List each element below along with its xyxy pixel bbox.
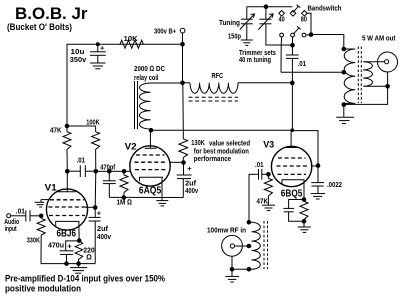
node B+ junction: [180, 42, 185, 47]
node trimmer top: [264, 4, 269, 9]
svg-text:400v: 400v: [185, 186, 199, 195]
resistor V3 cathode: [300, 201, 308, 221]
wire divider cross: [67, 125, 96, 127]
node jack shell bottom: [230, 267, 235, 272]
wire to output transformer: [311, 35, 344, 50]
svg-text:300v B+: 300v B+: [154, 26, 176, 35]
svg-text:.01: .01: [77, 155, 86, 164]
svg-text:Ω: Ω: [86, 252, 92, 261]
svg-text:.01: .01: [298, 59, 307, 68]
wire interstage bus: [96, 170, 110, 172]
svg-text:80: 80: [301, 14, 307, 23]
switch upper contact 80: [302, 11, 308, 17]
relay coil winding: [139, 83, 150, 129]
node transformer primary bottom: [342, 102, 347, 107]
wire 80 lower contact stub: [306, 34, 311, 36]
svg-text:47K: 47K: [50, 126, 62, 135]
wire cathode to 470u: [66, 241, 80, 251]
ground below transformer: [336, 105, 354, 124]
wire pole contact stub: [292, 37, 294, 45]
node 1M junction: [122, 169, 127, 174]
node plate 4-way junction: [291, 128, 295, 132]
capacitor 470pf: [103, 171, 116, 197]
ground RF input: [225, 269, 239, 282]
tube V1 envelope: [46, 189, 87, 230]
capacitor .01 tank: [286, 55, 299, 58]
ground V1 cathode bus: [70, 264, 87, 274]
RF input coil core dashed: [264, 221, 268, 269]
svg-text:+: +: [67, 241, 72, 250]
switch upper contact 40: [279, 11, 285, 17]
wire tank top: [247, 6, 293, 8]
svg-text:470u: 470u: [48, 241, 64, 250]
node secondary bottom: [385, 84, 390, 89]
ground below tuning cap: [241, 24, 253, 46]
V2 plate: [145, 130, 157, 148]
wire B+ down to relay/RFC: [182, 44, 184, 83]
wire V1 cathode lead: [78, 227, 80, 241]
resistor 47K (V1 plate): [63, 126, 71, 171]
ground below 10u: [90, 63, 106, 69]
wire V2 screen lead: [170, 161, 184, 163]
RF input coil winding: [249, 222, 260, 269]
node 1M bottom: [122, 195, 127, 200]
switch lower contact pole: [291, 33, 295, 37]
capacitor 2uf 400v (V2): [177, 163, 192, 198]
antenna jack circle: [378, 52, 398, 72]
svg-text:+: +: [100, 44, 105, 53]
capacitor 10u filter: [90, 44, 106, 63]
svg-text:Tuning: Tuning: [219, 18, 240, 27]
V1 grid dashes: [49, 200, 86, 216]
wire RFC right lead: [238, 82, 292, 84]
svg-text:330K: 330K: [27, 236, 41, 245]
V1 screen lead: [86, 206, 96, 208]
wire jack pin to coil tap: [235, 245, 252, 247]
relay coil core: [135, 81, 138, 129]
svg-text:.01: .01: [16, 207, 25, 216]
svg-text:Pre-amplified D-104 input give: Pre-amplified D-104 input gives over 150…: [5, 274, 165, 284]
node coil tap: [247, 244, 252, 249]
wire jog to screen bypass: [292, 131, 318, 166]
node 470u bottom: [64, 261, 69, 266]
wire tank vertical lower: [291, 58, 293, 130]
wire trimmer bottom net: [266, 24, 293, 45]
V3 plate: [285, 147, 299, 149]
switch lower contact 40: [280, 33, 284, 37]
capacitor .01 V3 grid: [249, 169, 268, 180]
ground V2 cathode: [156, 178, 168, 206]
svg-text:40: 40: [279, 14, 285, 23]
capacitor tuning 150p variable: [240, 7, 255, 30]
svg-text:+: +: [97, 208, 102, 217]
V3 cathode: [282, 180, 304, 202]
svg-text:Bandswitch: Bandswitch: [308, 4, 342, 13]
wire input coil return: [232, 268, 252, 270]
resistor 130K: [179, 130, 188, 162]
node relay/RFC junction: [180, 81, 185, 86]
svg-text:40 m tuning: 40 m tuning: [239, 55, 271, 64]
svg-text:V3: V3: [263, 140, 274, 151]
svg-text:150p: 150p: [228, 32, 241, 41]
node input coil bottom: [247, 267, 252, 272]
V1 plate: [57, 171, 75, 192]
wire V3 plate lead: [290, 130, 292, 147]
capacitor .01 audio: [26, 210, 41, 221]
inductor RFC: [190, 83, 238, 94]
svg-text:+: +: [187, 164, 192, 173]
wire V1 screen to interstage node: [94, 171, 97, 207]
wire tap to transformer: [281, 71, 344, 73]
capacitor .01 interstage (V1 plate): [67, 165, 96, 177]
svg-text:B.O.B. Jr: B.O.B. Jr: [15, 5, 88, 23]
node V1 screen top junction: [94, 169, 99, 174]
svg-text:6BJ6: 6BJ6: [57, 228, 77, 239]
node transformer tap: [342, 70, 347, 75]
tube V3 envelope: [271, 146, 311, 186]
node V2 screen junction: [181, 160, 186, 165]
wire V3 grid to input coil: [248, 174, 250, 222]
terminal audio input: [7, 214, 11, 218]
switch lower contact 80: [302, 33, 306, 37]
svg-text:1M Ω: 1M Ω: [117, 198, 133, 207]
node V3 cathode top: [302, 197, 307, 202]
svg-text:.0022: .0022: [327, 180, 342, 189]
RFC core dashed: [189, 97, 239, 101]
V2 grid dashes: [135, 155, 167, 170]
node V1 cathode junction: [77, 238, 82, 243]
node V3 screen junction: [316, 163, 321, 168]
svg-text:input: input: [5, 224, 17, 233]
svg-text:400v: 400v: [97, 232, 112, 241]
wire relay coil top: [151, 82, 183, 84]
ground below .0022: [311, 194, 325, 199]
transformer primary winding: [344, 49, 355, 103]
svg-text:470pf: 470pf: [100, 163, 115, 172]
svg-text:350v: 350v: [70, 55, 87, 64]
resistor 10K: [120, 40, 143, 48]
node bandswitch output: [309, 32, 314, 37]
svg-text:100mw RF in: 100mw RF in: [207, 226, 246, 235]
resistor 220: [75, 241, 83, 264]
ground below 47K: [262, 205, 275, 210]
switch upper contact pole: [290, 11, 296, 17]
capacitor .0022: [311, 166, 324, 194]
switch upper arm: [293, 5, 301, 13]
node V1 grid: [39, 214, 44, 219]
capacitor 2uf 400v (V1 screen): [89, 208, 101, 264]
wire V2 cathode bus: [109, 196, 183, 198]
terminal 300v B+: [180, 28, 185, 44]
tube V2 envelope: [130, 146, 170, 186]
svg-text:(Bucket O' Bolts): (Bucket O' Bolts): [7, 22, 72, 32]
wire tank vertical top: [291, 45, 293, 55]
svg-text:5 W AM out: 5 W AM out: [362, 34, 396, 43]
wire B+ rail: [67, 44, 183, 126]
node 220 bottom: [76, 261, 81, 266]
svg-text:V1: V1: [45, 183, 58, 194]
svg-text:performance: performance: [194, 154, 231, 163]
transformer secondary winding: [363, 62, 387, 87]
svg-text:.01: .01: [255, 160, 264, 169]
svg-text:6BQ5: 6BQ5: [281, 189, 303, 200]
V1 g3 ground: [35, 200, 49, 207]
node B+ cap junction: [96, 42, 100, 46]
ground V3 cathode: [298, 221, 311, 232]
node V1 screen: [93, 205, 98, 210]
node transformer primary top: [342, 47, 347, 52]
svg-text:10K: 10K: [124, 34, 139, 43]
svg-text:positive modulation: positive modulation: [5, 284, 81, 294]
V3 grid dashes: [277, 158, 308, 174]
wire modulated B+ bus: [151, 129, 292, 131]
svg-text:2000 Ω DC: 2000 Ω DC: [134, 64, 165, 73]
wire to 1M junction: [109, 170, 124, 172]
wire V1 ground bus: [41, 263, 95, 265]
node relay coil bottom / V2 plate: [149, 128, 154, 133]
svg-text:100K: 100K: [86, 118, 100, 127]
wire secondary return: [344, 86, 388, 104]
node input coil top: [247, 220, 252, 225]
V1 cathode: [56, 221, 79, 227]
svg-text:V2: V2: [125, 142, 137, 153]
resistor 47K (V3 grid): [264, 174, 272, 205]
resistor 330K: [37, 216, 45, 264]
svg-text:47K: 47K: [257, 197, 269, 206]
V2 cathode: [140, 177, 164, 181]
node V3 cathode bottom: [302, 219, 307, 224]
wire 80 contact to bus: [307, 13, 311, 34]
resistor 100K (screen): [92, 126, 100, 171]
wire B+ feed down to plate bus: [182, 83, 185, 130]
node switch/cap junction: [290, 43, 295, 48]
wire jack shell down: [231, 256, 233, 269]
wire jack shell down: [387, 72, 389, 86]
wire V3 screen lead: [311, 165, 318, 167]
node divider top: [65, 124, 70, 129]
capacitor 470u: [60, 251, 74, 264]
svg-text:6AQ5: 6AQ5: [139, 186, 162, 197]
wire 40m contact to tap: [280, 45, 282, 73]
RF input jack: [222, 235, 243, 256]
node 470pf junction: [107, 169, 112, 174]
resistor 1M: [120, 171, 128, 197]
capacitor V3 cathode bypass: [283, 200, 304, 222]
svg-text:relay coil: relay coil: [134, 73, 159, 82]
capacitor trimmer variable: [258, 7, 273, 30]
transformer core dashed: [358, 47, 361, 104]
wire RFC left lead: [183, 82, 191, 84]
node V1 plate junction: [65, 169, 70, 174]
node V3 grid junction: [266, 172, 271, 177]
svg-text:RFC: RFC: [212, 71, 224, 80]
switch lower arm: [293, 26, 301, 34]
node RFC / tank junction: [290, 81, 295, 86]
wire 40m contact stub: [280, 37, 282, 45]
wire audio input: [11, 215, 26, 217]
wire V2 grid lead: [124, 170, 131, 172]
